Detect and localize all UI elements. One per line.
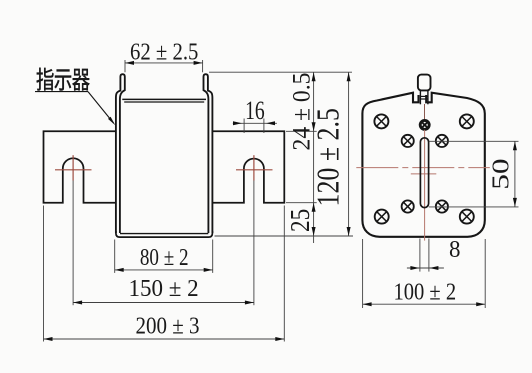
right slot horizontal centreline (red) (236, 169, 273, 171)
right mounting lug (212, 131, 284, 202)
fuse body bottom edge (double line, rounded corners) (116, 231, 212, 237)
svg-text:62 ± 2.5: 62 ± 2.5 (130, 39, 198, 66)
dimension 120±2.5 (overall height) (348, 72, 350, 236)
svg-text:50: 50 (487, 158, 514, 189)
dimension 16 (slot width) (243, 119, 245, 134)
left mounting lug (44, 131, 116, 202)
dimension 150±2 (slot centres) (73, 302, 254, 304)
inner screws (slotted, 45°) (402, 135, 414, 147)
central slot (stadium) (420, 138, 428, 208)
dimension 62±2.5 (top width) (124, 60, 126, 72)
left slot vertical centreline / extension for 150 dim (72, 155, 74, 180)
dimension 200±3 (overall length) (43, 206, 45, 342)
corner screws (slotted, 45°) (374, 114, 388, 128)
svg-text:16: 16 (245, 96, 265, 125)
dimension 25 (312, 203, 316, 212)
dimension 80±2 (body width) (114, 240, 116, 273)
right slot vertical centreline / extension for 150 dim (253, 155, 255, 180)
short red bar under centreline (411, 173, 437, 175)
dimension 50 (slot length) (429, 140, 519, 142)
horizontal centreline (red, dash-dot) (356, 167, 490, 169)
dimension 100±2 (body width) (362, 239, 364, 308)
svg-text:150 ± 2: 150 ± 2 (129, 276, 199, 302)
fuse body top edge (double line) (122, 98, 206, 100)
fuse front view: body outer profile with top cap tabs (116, 74, 125, 233)
left slot horizontal centreline (red) (55, 169, 92, 171)
fuse front view: right cap tab (204, 74, 213, 233)
dimension 8 (slot width) (419, 239, 421, 272)
label 指示器 (indicator) (36, 68, 53, 91)
svg-text:8: 8 (449, 237, 461, 263)
svg-text:120 ± 2.5: 120 ± 2.5 (310, 108, 346, 206)
svg-text:25: 25 (285, 209, 315, 232)
svg-text:100 ± 2: 100 ± 2 (393, 280, 456, 306)
svg-text:80 ± 2: 80 ± 2 (140, 245, 189, 271)
leader line with underline and arrow (35, 91, 88, 93)
svg-text:200 ± 3: 200 ± 3 (136, 313, 200, 339)
fuse side view: body outline (362, 93, 484, 237)
blade tab (edge view) at top (418, 75, 431, 91)
indicator link line (424, 104, 426, 120)
indicator button (420, 120, 429, 129)
dimension 24±0.5 (313, 72, 315, 243)
vertical centreline (red) (424, 130, 426, 241)
extension lines for vertical dims (24, 25, 120) (209, 71, 352, 73)
